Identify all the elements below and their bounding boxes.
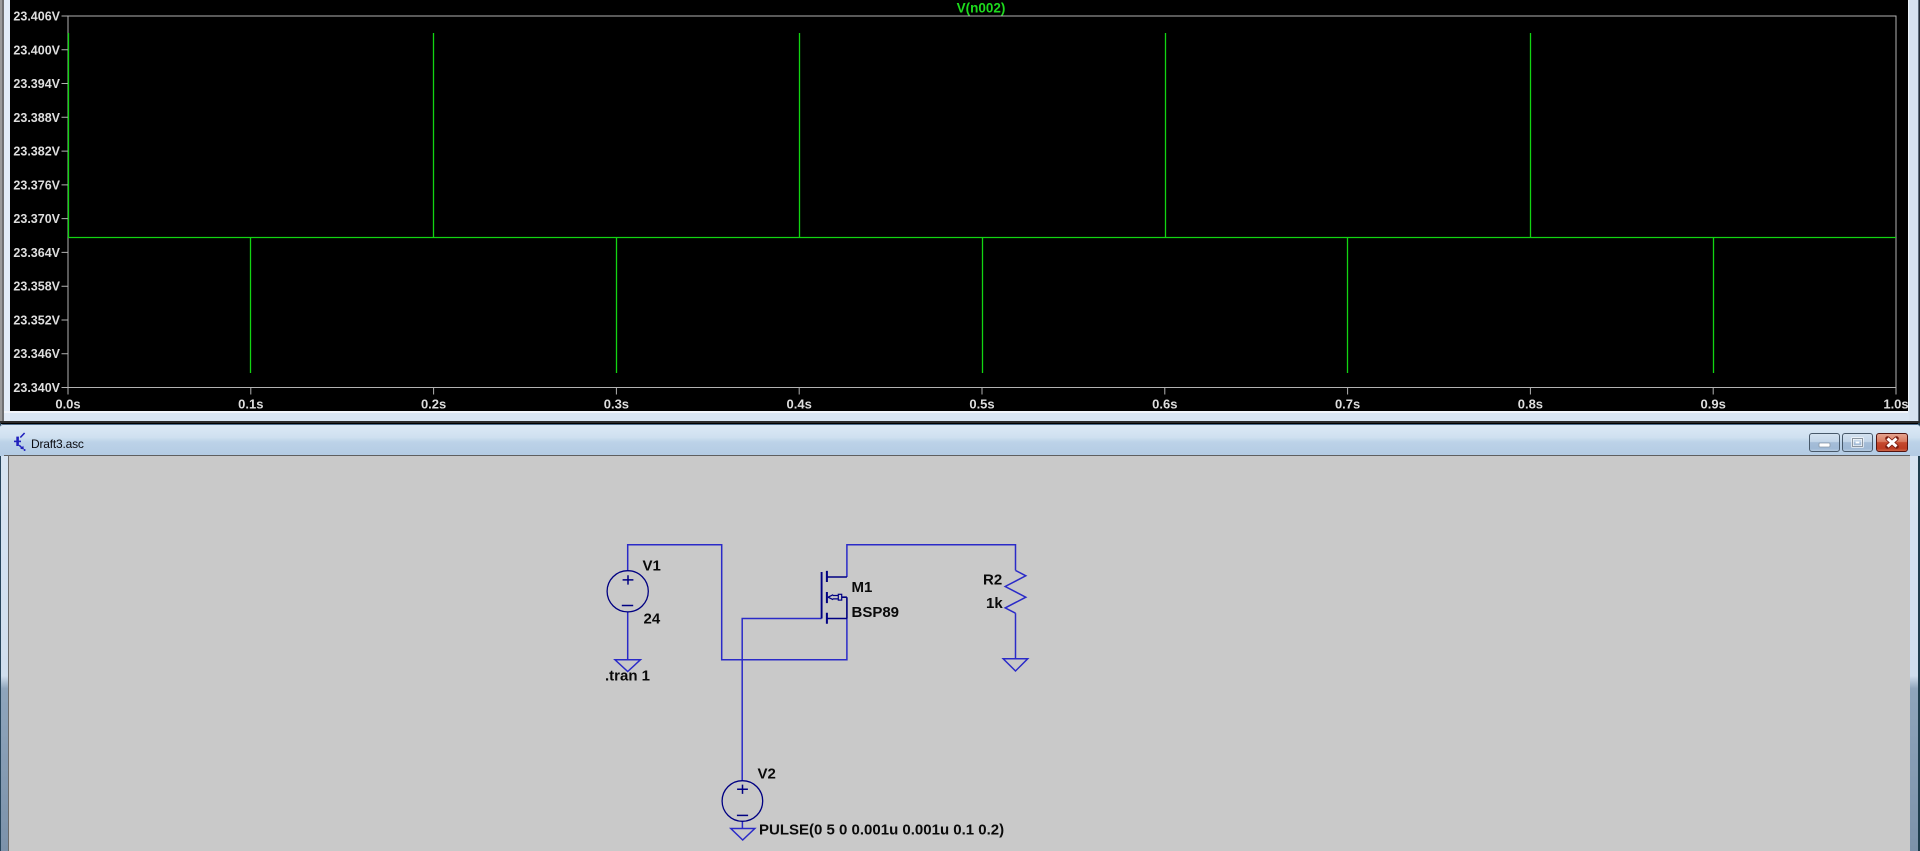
M1 source stub	[827, 618, 847, 620]
svg-text:M1: M1	[852, 579, 873, 596]
svg-text:1k: 1k	[986, 595, 1003, 612]
svg-text:23.406V: 23.406V	[13, 10, 60, 24]
voltage source V2 circle	[722, 781, 763, 822]
plot border box	[68, 16, 1896, 388]
svg-text:0.4s: 0.4s	[787, 397, 812, 412]
V1 plus sign	[623, 575, 634, 584]
waveform window	[0, 0, 1920, 423]
wire: V2 minus to ground	[741, 821, 743, 828]
svg-text:.tran 1: .tran 1	[605, 668, 650, 685]
svg-text:PULSE(0 5 0 0.001u 0.001u 0.1: PULSE(0 5 0 0.001u 0.001u 0.1 0.2)	[759, 822, 1004, 839]
svg-text:0.6s: 0.6s	[1152, 397, 1177, 412]
transistor M1 gate bar	[821, 572, 823, 619]
svg-text:BSP89: BSP89	[852, 604, 900, 621]
svg-text:0.1s: 0.1s	[238, 397, 263, 412]
svg-text:0.2s: 0.2s	[421, 397, 446, 412]
svg-text:0.7s: 0.7s	[1335, 397, 1360, 412]
svg-text:R2: R2	[983, 572, 1002, 589]
V2 minus sign	[737, 814, 748, 816]
ground below R2	[1003, 659, 1027, 671]
V1 minus sign	[622, 605, 633, 607]
svg-text:23.382V: 23.382V	[13, 145, 60, 159]
svg-text:V1: V1	[643, 558, 661, 575]
M1 drain stub	[827, 576, 847, 578]
svg-text:23.394V: 23.394V	[13, 77, 60, 91]
svg-text:V2: V2	[758, 766, 776, 783]
ground below V1	[615, 660, 640, 672]
V2 plus sign	[737, 785, 748, 794]
svg-text:24: 24	[644, 611, 661, 628]
svg-text:1.0s: 1.0s	[1883, 397, 1908, 412]
M1 bulk arrow	[828, 595, 838, 600]
svg-text:0.3s: 0.3s	[604, 397, 629, 412]
svg-text:23.376V: 23.376V	[13, 178, 60, 192]
svg-text:0.5s: 0.5s	[969, 397, 994, 412]
svg-text:0.0s: 0.0s	[55, 397, 80, 412]
schematic window	[0, 423, 1920, 851]
wire: V1 minus to ground	[627, 612, 629, 660]
M1 bulk arrow cap and lead	[838, 594, 841, 600]
wire: R2 bottom to ground	[1015, 613, 1017, 659]
svg-text:23.352V: 23.352V	[13, 314, 60, 328]
svg-text:23.340V: 23.340V	[13, 381, 60, 395]
svg-text:23.400V: 23.400V	[13, 43, 60, 57]
svg-text:0.8s: 0.8s	[1518, 397, 1543, 412]
wire: gate of M1 to V2 plus	[742, 619, 821, 781]
svg-text:0.9s: 0.9s	[1701, 397, 1726, 412]
wire: V1 plus to node through top, down and along bottom to M1 source	[628, 545, 847, 660]
ground below V2	[731, 829, 755, 841]
svg-text:23.358V: 23.358V	[13, 280, 60, 294]
green trace V(n002)	[68, 33, 1896, 373]
svg-text:23.364V: 23.364V	[13, 246, 60, 260]
M1 channel segments	[826, 571, 828, 624]
LTspice app icon	[12, 431, 28, 452]
svg-text:23.388V: 23.388V	[13, 111, 60, 125]
voltage source V1 circle	[607, 571, 648, 612]
resistor R2 zigzag	[1005, 570, 1026, 613]
axis ticks	[62, 16, 1897, 395]
svg-text:23.370V: 23.370V	[13, 212, 60, 226]
svg-text:23.346V: 23.346V	[13, 347, 60, 361]
wire: M1 drain up and across to R2 top	[847, 545, 1016, 577]
svg-text:V(n002): V(n002)	[957, 1, 1006, 16]
